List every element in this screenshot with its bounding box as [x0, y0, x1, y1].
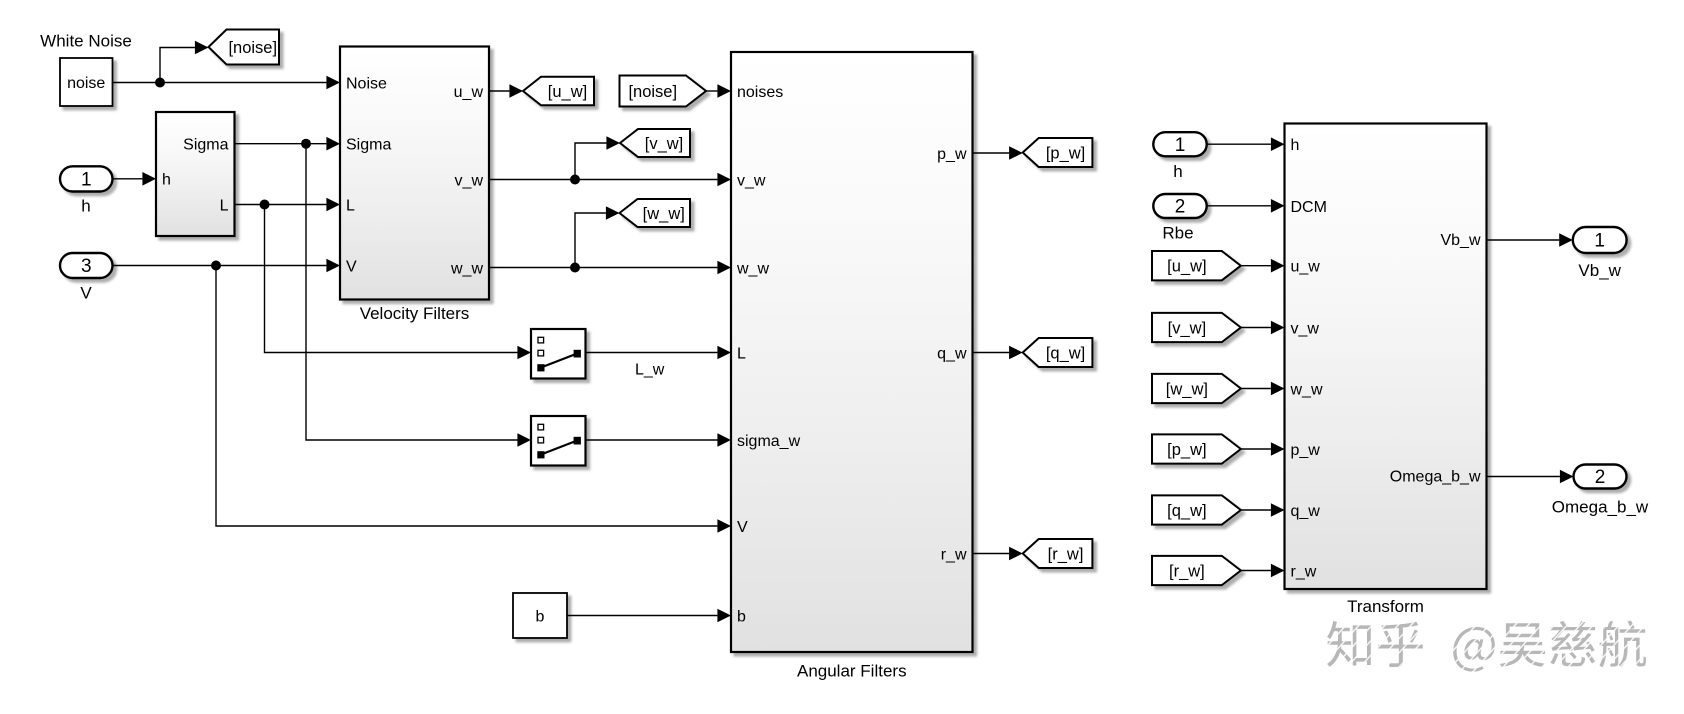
svg-text:[u_w]: [u_w] [1167, 258, 1206, 276]
svg-text:v_w: v_w [455, 172, 484, 189]
svg-text:p_w: p_w [1291, 442, 1321, 459]
svg-text:Angular Filters: Angular Filters [797, 662, 907, 681]
svg-text:[q_w]: [q_w] [1167, 502, 1206, 520]
selector block (sigma selection) [531, 416, 586, 466]
svg-text:[v_w]: [v_w] [645, 135, 684, 153]
svg-text:h: h [1291, 137, 1300, 154]
svg-text:noises: noises [737, 84, 783, 101]
subsystem Velocity Filters [340, 47, 489, 324]
goto tag [r_w] [1023, 539, 1093, 568]
svg-text:L_w: L_w [635, 362, 665, 379]
svg-text:V: V [80, 284, 92, 303]
inport 1 h (right) [1153, 132, 1206, 181]
svg-text:Vb_w: Vb_w [1578, 261, 1621, 280]
wire Omega_b_w output to outport 2 [1487, 470, 1574, 484]
svg-text:2: 2 [1595, 467, 1606, 488]
svg-text:sigma_w: sigma_w [737, 433, 801, 450]
wire from [q_w] to Transform port [1241, 503, 1285, 517]
svg-text:Sigma: Sigma [183, 137, 228, 154]
wire from [p_w] to Transform port [1241, 442, 1285, 456]
goto tag [p_w] [1023, 138, 1093, 167]
wire Vb_w output to outport 1 [1487, 233, 1573, 247]
svg-text:q_w: q_w [1291, 503, 1321, 520]
wire inport Rbe to Transform DCM port [1207, 199, 1285, 213]
svg-text:[r_w]: [r_w] [1169, 562, 1205, 580]
svg-text:r_w: r_w [1291, 563, 1317, 580]
goto tag [noise] [209, 30, 280, 65]
goto tag [q_w] [1023, 338, 1093, 367]
wire L output to Velocity Filters L port [235, 198, 341, 212]
goto tag [w_w] [620, 199, 691, 227]
svg-text:h: h [81, 197, 90, 216]
svg-text:Rbe: Rbe [1162, 224, 1193, 243]
svg-text:[r_w]: [r_w] [1048, 545, 1084, 563]
label White Noise [40, 32, 132, 51]
wire Sigma output to Velocity Filters Sigma port [235, 137, 341, 151]
wire selector to Angular Filters sigma_w port [586, 433, 732, 447]
junction on noise wire [155, 78, 165, 88]
subsystem Sigma [156, 112, 235, 236]
svg-text:Vb_w: Vb_w [1440, 232, 1480, 249]
svg-text:V: V [346, 259, 357, 276]
svg-text:L: L [737, 346, 746, 363]
wire u_w output to Goto [u_w] [489, 84, 523, 98]
inport 1 h [60, 166, 113, 215]
wire noise output to Velocity Filters Noise port [113, 76, 341, 90]
svg-text:2: 2 [1175, 197, 1186, 218]
wire from [u_w] to Transform port [1241, 259, 1285, 273]
outport 2 Omega_b_w [1552, 465, 1649, 517]
svg-text:[u_w]: [u_w] [548, 83, 587, 101]
svg-text:noise: noise [67, 75, 105, 92]
from tag [r_w] (right) [1152, 556, 1241, 585]
wire b to Angular Filters b port [567, 609, 731, 623]
wire inport h to Transform h port [1207, 137, 1285, 151]
svg-text:V: V [737, 519, 748, 536]
svg-text:Sigma: Sigma [346, 137, 391, 154]
watermark zhihu [1327, 620, 1646, 671]
svg-text:q_w: q_w [937, 345, 967, 362]
svg-text:v_w: v_w [1291, 320, 1320, 337]
junction on w_w wire [570, 263, 580, 273]
svg-text:b: b [536, 609, 545, 626]
wire selector to Angular Filters L port, label L_w [586, 346, 732, 379]
svg-text:h: h [162, 172, 171, 189]
wire branch V down to Angular Filters V port [216, 266, 731, 533]
wire from [v_w] to Transform port [1241, 321, 1285, 335]
svg-text:L: L [346, 198, 355, 215]
junction on V wire [211, 261, 221, 271]
outport 1 Vb_w [1573, 227, 1627, 280]
svg-text:1: 1 [1594, 231, 1605, 252]
junction on Sigma wire [301, 139, 311, 149]
svg-text:[p_w]: [p_w] [1167, 441, 1206, 459]
svg-text:v_w: v_w [737, 172, 766, 189]
from tag [q_w] (right) [1152, 495, 1241, 524]
from tag [u_w] (right) [1152, 251, 1241, 280]
wire branch up to Goto [v_w] [575, 136, 620, 179]
svg-text:DCM: DCM [1291, 199, 1327, 216]
junction on v_w wire [570, 175, 580, 185]
svg-text:w_w: w_w [450, 260, 483, 277]
svg-text:Noise: Noise [346, 76, 387, 93]
wire v_w output to Angular Filters v_w port [489, 173, 731, 187]
svg-text:[v_w]: [v_w] [1168, 319, 1207, 337]
wire p_w output to Goto [p_w] [973, 146, 1023, 160]
subsystem Angular Filters [731, 52, 973, 681]
svg-text:r_w: r_w [941, 546, 967, 563]
block noise (white-noise source) [60, 58, 113, 106]
svg-text:[p_w]: [p_w] [1046, 144, 1085, 162]
from tag [v_w] (right) [1152, 313, 1241, 342]
svg-text:w_w: w_w [736, 260, 769, 277]
wire w_w output to Angular Filters w_w port [489, 261, 731, 275]
svg-text:Omega_b_w: Omega_b_w [1552, 498, 1649, 517]
from tag [w_w] (right) [1152, 374, 1241, 403]
svg-text:u_w: u_w [1291, 259, 1321, 276]
svg-text:[w_w]: [w_w] [643, 205, 685, 223]
wire from [w_w] to Transform port [1241, 382, 1285, 396]
wire q_w output to Goto [q_w] [973, 346, 1023, 360]
inport 3 V [60, 253, 113, 303]
svg-text:3: 3 [81, 256, 92, 277]
wire from [r_w] to Transform port [1241, 564, 1285, 578]
svg-text:1: 1 [1175, 135, 1186, 156]
svg-text:[noise]: [noise] [628, 83, 677, 101]
wire branch junction up to Goto [noise] [160, 41, 209, 83]
block b (constant) [513, 593, 567, 638]
wire inport V to Velocity Filters V port [113, 259, 341, 273]
goto tag [v_w] [620, 129, 690, 157]
svg-text:[noise]: [noise] [228, 39, 277, 57]
from tag [noise] [620, 76, 707, 107]
svg-text:Transform: Transform [1347, 597, 1424, 616]
svg-text:Omega_b_w: Omega_b_w [1390, 469, 1481, 486]
subsystem Transform [1285, 124, 1487, 617]
svg-text:u_w: u_w [454, 84, 484, 101]
junction on L wire [260, 200, 270, 210]
svg-text:L: L [220, 197, 229, 214]
wire r_w output to Goto [r_w] [973, 547, 1023, 561]
selector block (L selection) [531, 329, 586, 379]
svg-text:Velocity Filters: Velocity Filters [360, 304, 470, 323]
inport 2 Rbe [1153, 194, 1206, 243]
svg-text:White Noise: White Noise [40, 32, 132, 51]
wire from [noise] to Angular Filters noises port [706, 84, 731, 98]
wire branch up to Goto [w_w] [575, 206, 620, 267]
svg-text:1: 1 [81, 170, 92, 191]
from tag [p_w] (right) [1152, 434, 1241, 463]
svg-text:h: h [1173, 162, 1182, 181]
wire inport h to Sigma block [113, 172, 157, 186]
svg-text:w_w: w_w [1290, 381, 1323, 398]
svg-text:b: b [737, 608, 746, 625]
svg-text:p_w: p_w [937, 146, 967, 163]
svg-text:[w_w]: [w_w] [1166, 380, 1208, 398]
svg-text:[q_w]: [q_w] [1046, 344, 1085, 362]
wire branch L down to selector 1 [265, 205, 532, 360]
goto tag [u_w] [523, 77, 594, 106]
wire branch Sigma down to selector 2 [306, 144, 531, 447]
